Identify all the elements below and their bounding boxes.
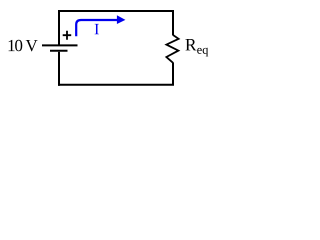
current arrowhead	[117, 15, 126, 24]
label R	[185, 39, 196, 50]
label I	[95, 24, 99, 34]
label V	[26, 40, 38, 51]
wire: right lower segment + bottom wire	[58, 63, 173, 85]
battery short plate (negative terminal)	[50, 50, 68, 52]
wire: top side with left and right upper corners	[59, 11, 173, 45]
plus polarity sign	[63, 31, 71, 40]
resistor Req zigzag	[166, 35, 178, 63]
wire: right upper segment	[172, 10, 174, 35]
battery long plate (positive terminal)	[42, 44, 78, 46]
wire: left lower segment	[58, 52, 60, 86]
label 10	[9, 40, 23, 51]
label eq subscript	[197, 48, 208, 57]
current arrow I (blue), curved tail	[76, 20, 117, 36]
